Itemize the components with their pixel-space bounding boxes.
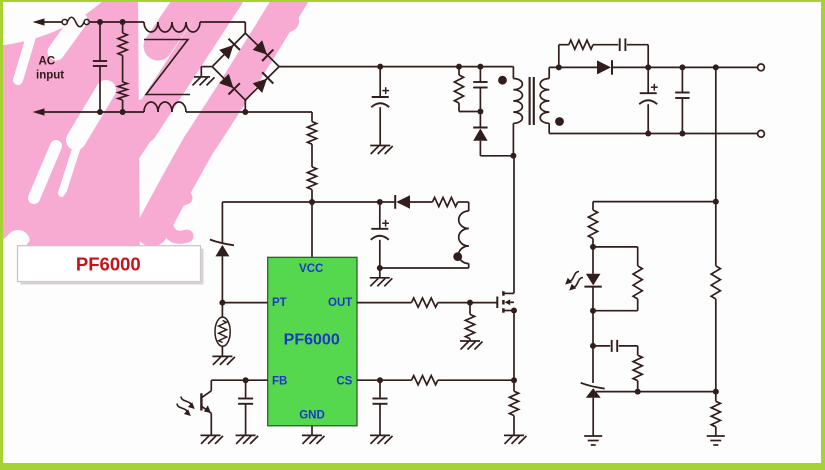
- node sense: [511, 377, 517, 383]
- resistor R1: [118, 22, 127, 82]
- watermark stroke 5: [35, 116, 145, 262]
- svg-text:CS: CS: [336, 375, 352, 387]
- primary polarity dot: [498, 76, 507, 85]
- choke Z mark: [144, 40, 190, 95]
- zener D7: [210, 240, 234, 257]
- inductor aux winding: [459, 211, 469, 264]
- watermark stroke 3: [118, 118, 148, 163]
- wire snubber up: [559, 45, 569, 68]
- wire PT: [222, 302, 267, 304]
- inductor L1 (choke top): [144, 22, 200, 32]
- resistor R6 startup: [307, 167, 316, 202]
- resistor R7 vcc: [433, 197, 458, 206]
- node clamp junction: [477, 109, 483, 115]
- fuse F1: [62, 17, 89, 27]
- watermark gap 3: [76, 90, 106, 140]
- ground gate resistor: [460, 341, 483, 350]
- wire tl431 anode: [592, 398, 594, 436]
- ground bulk cap: [370, 146, 393, 155]
- capacitor C9 comp: [593, 340, 638, 355]
- opto light arrows: [177, 397, 195, 417]
- wire bottom rail left: [43, 111, 144, 113]
- wire fb tap: [715, 67, 717, 201]
- resistor R2: [118, 82, 127, 112]
- label AC input: [36, 56, 64, 82]
- LED D9 opto: [584, 274, 601, 287]
- wire CS to sense: [438, 379, 514, 381]
- node bridge bottom: [242, 109, 248, 115]
- node sec top: [556, 64, 562, 70]
- node out-3: [713, 64, 719, 70]
- ground fb cap: [236, 435, 259, 444]
- diode D8 vcc: [380, 195, 433, 209]
- capacitor C8 cs: [373, 380, 388, 435]
- resistor R3 clamp: [454, 67, 480, 112]
- node source: [511, 308, 517, 314]
- wire FB: [211, 379, 267, 381]
- wire snubber right: [627, 45, 648, 68]
- node out-1: [645, 64, 651, 70]
- IC U1 PF6000: [268, 257, 357, 426]
- diode D4 (bridge LR): [253, 72, 274, 93]
- wire tl431 ref: [596, 391, 716, 393]
- wire zener top: [221, 202, 223, 243]
- wire out rail top: [612, 66, 761, 68]
- wire gate: [438, 302, 498, 304]
- diode D2 (bridge UR): [253, 40, 274, 61]
- resistor R8 gate: [412, 298, 438, 307]
- resistor R14 comp: [633, 355, 642, 391]
- wire bridge earth stub: [201, 67, 212, 77]
- wire top rail right: [200, 22, 245, 33]
- resistor R13 led parallel: [593, 247, 642, 311]
- node clamp return: [510, 153, 516, 159]
- resistor R12 led series: [588, 210, 597, 247]
- ground divider: [707, 436, 725, 445]
- wire led anode: [592, 247, 594, 274]
- node ref-1: [635, 389, 641, 395]
- wire top rail left: [43, 21, 62, 23]
- capacitor C7 fb: [238, 380, 253, 435]
- transformer T1 primary: [513, 67, 522, 156]
- watermark stroke 2: [142, 0, 228, 128]
- node bulk cap: [377, 64, 383, 70]
- node top-2: [120, 19, 126, 25]
- watermark curl: [166, 198, 187, 237]
- wire VCC down: [311, 202, 313, 257]
- watermark gap 4: [34, 146, 56, 198]
- ground bridge earth: [193, 77, 215, 86]
- svg-text:input: input: [36, 70, 64, 82]
- varistor RV1: [215, 303, 230, 357]
- wire top rail mid: [89, 21, 144, 23]
- wire tl431 cathode: [592, 346, 594, 383]
- node gate: [467, 300, 473, 306]
- capacitor C3 snubber: [620, 38, 626, 51]
- node fb tap: [713, 199, 719, 205]
- svg-text:FB: FB: [272, 375, 287, 387]
- capacitor C1 bulk: [371, 67, 389, 146]
- wire drain: [513, 156, 515, 294]
- node aux return: [377, 265, 383, 271]
- diode D3 (bridge LL): [219, 74, 240, 95]
- transistor Q1 MOSFET: [497, 291, 514, 313]
- node CS cap: [377, 377, 383, 383]
- node bot-1: [97, 109, 103, 115]
- wire out rail bottom: [549, 133, 760, 135]
- wire led cathode: [592, 287, 594, 311]
- svg-text:AC: AC: [39, 56, 56, 68]
- wire led to comp: [592, 311, 594, 346]
- optocoupler U2 transistor: [201, 380, 211, 435]
- resistor R15 divider top: [711, 202, 720, 392]
- diode D5 clamp: [473, 112, 513, 156]
- terminal - output: [758, 130, 765, 137]
- svg-text:OUT: OUT: [328, 297, 352, 309]
- inductor L2 (choke bottom): [144, 102, 186, 112]
- node led top: [590, 244, 596, 250]
- watermark blob left: [0, 0, 140, 272]
- node clamp R top: [456, 64, 462, 70]
- ground sense resistor: [504, 435, 527, 444]
- shunt regulator U3 TL431: [581, 383, 605, 398]
- node out-5: [679, 131, 685, 137]
- wire CS pin: [357, 379, 412, 381]
- terminal + output: [758, 64, 765, 71]
- diode D1 (bridge UL): [219, 39, 240, 60]
- svg-text:VCC: VCC: [299, 263, 323, 275]
- resistor R16 divider bottom: [711, 392, 720, 436]
- wire bridge frame: [212, 33, 279, 112]
- wire zener bottom: [221, 256, 223, 302]
- resistor R11 sense: [509, 380, 518, 435]
- ground tl431: [584, 436, 602, 445]
- wire snubber mid: [593, 44, 618, 46]
- ground varistor: [212, 356, 235, 365]
- wire bottom rail right: [186, 111, 312, 113]
- resistor R5 startup: [307, 112, 316, 167]
- watermark gap 5: [62, 140, 79, 193]
- svg-text:PT: PT: [272, 297, 287, 309]
- watermark gap 6: [52, 205, 73, 252]
- ground opto emitter: [201, 435, 224, 444]
- node ref-2: [713, 389, 719, 395]
- wire aux bottom: [380, 264, 469, 269]
- svg-text:PF6000: PF6000: [76, 254, 141, 275]
- node led bottom: [590, 308, 596, 314]
- aux polarity dot: [453, 252, 462, 261]
- node VCC-2: [377, 199, 383, 205]
- node FB cap: [243, 377, 249, 383]
- wire GND pin: [311, 426, 313, 436]
- AC line arrow bottom: [33, 108, 45, 115]
- watermark gap 7: [0, 242, 18, 264]
- watermark stroke 4: [152, 0, 295, 230]
- node bot-2: [120, 109, 126, 115]
- diode D6 output: [597, 60, 612, 74]
- capacitor C5 output: [675, 67, 689, 133]
- node clamp C top: [477, 64, 483, 70]
- node out-2: [679, 64, 685, 70]
- wire sec top: [549, 66, 597, 68]
- watermark gap corner: [18, 30, 33, 80]
- node top-1: [97, 19, 103, 25]
- label PF6000: [18, 246, 204, 285]
- watermark blob: [271, 10, 299, 39]
- transformer T1 core: [530, 77, 534, 125]
- node PT: [219, 300, 225, 306]
- node out-4: [645, 131, 651, 137]
- resistor R10 cs: [412, 376, 438, 385]
- AC line arrow top: [33, 18, 45, 25]
- svg-text:GND: GND: [299, 410, 325, 422]
- ground vcc cap: [370, 268, 393, 286]
- ground IC: [302, 435, 325, 444]
- watermark gap 2: [56, 20, 79, 52]
- capacitor C6 vcc: [371, 202, 389, 268]
- wire aux top: [458, 202, 469, 211]
- LED light arrows: [565, 272, 583, 291]
- transformer T1 secondary: [540, 67, 549, 133]
- wire source down: [513, 311, 515, 381]
- resistor R9 gate pulldown: [465, 303, 474, 341]
- ground cs cap: [370, 435, 393, 444]
- watermark stroke 1b: [158, 0, 196, 46]
- node comp: [590, 343, 596, 349]
- wire B+ rail: [279, 66, 513, 68]
- wire OUT pin: [357, 302, 412, 304]
- resistor R4 snubber: [569, 40, 593, 49]
- wire fb top: [593, 202, 716, 210]
- secondary polarity dot: [555, 117, 564, 126]
- capacitor C4 output: [639, 67, 658, 133]
- svg-text:PF6000: PF6000: [284, 332, 340, 349]
- wire VCC horizontal: [222, 201, 379, 203]
- capacitor CX1: [93, 22, 107, 112]
- capacitor C2 clamp: [473, 67, 487, 112]
- node VCC-1: [309, 199, 315, 205]
